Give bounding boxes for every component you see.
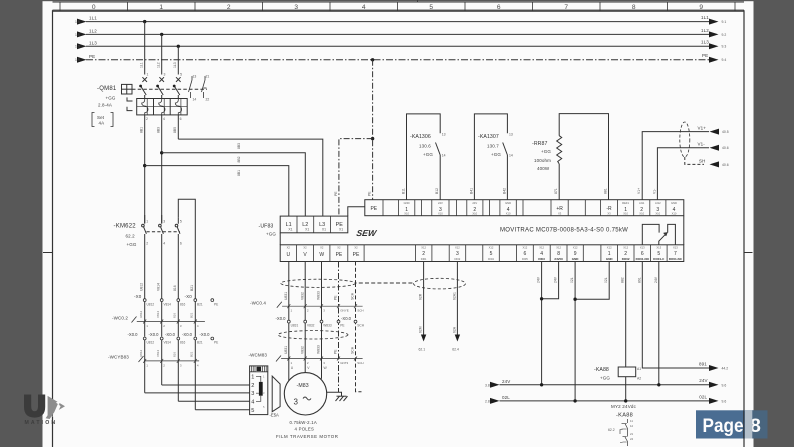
svg-text:X1: X1 [322, 228, 326, 232]
svg-text:02L: 02L [502, 395, 510, 400]
svg-text:X12: X12 [607, 246, 612, 250]
svg-text:1L3: 1L3 [701, 40, 709, 45]
svg-text:5: 5 [180, 73, 182, 77]
wire drive output U [284, 262, 289, 381]
svg-text:8B3: 8B3 [237, 143, 241, 149]
breaker QM81 pole 3 [174, 77, 180, 98]
terminal X0.0 motor row labels [276, 316, 352, 321]
svg-text:X2: X2 [287, 246, 291, 250]
svg-text:X1: X1 [305, 228, 309, 232]
svg-text:U812: U812 [139, 310, 143, 318]
svg-text:GND: GND [505, 201, 511, 205]
svg-text:62A1: 62A1 [452, 292, 456, 300]
svg-text:9.1: 9.1 [722, 20, 727, 24]
logo upmation [24, 395, 65, 427]
svg-text:-X0.0: -X0.0 [200, 332, 211, 337]
svg-text:V1+: V1+ [637, 188, 641, 194]
svg-text:24V: 24V [438, 201, 443, 205]
wires X0 to X0.0 [145, 301, 196, 336]
wires X0.0 down [145, 340, 196, 410]
svg-text:X12: X12 [539, 246, 544, 250]
svg-text:W833: W833 [317, 345, 321, 354]
svg-text:X12: X12 [421, 246, 426, 250]
connector E5A [250, 366, 268, 415]
svg-text:8B5: 8B5 [173, 127, 177, 133]
svg-text:1L1: 1L1 [140, 62, 144, 68]
bus 02L [485, 394, 726, 404]
svg-text:PE: PE [334, 349, 338, 354]
svg-text:SCH: SCH [357, 324, 364, 328]
svg-text:DI04: DI04 [488, 257, 494, 261]
svg-text:40.6: 40.6 [722, 163, 729, 167]
relay contact DO01 inside drive [642, 224, 675, 244]
svg-text:100ohm: 100ohm [534, 158, 551, 163]
ruler ticks [60, 2, 735, 11]
node coil A2 on 0V bus [624, 399, 627, 402]
svg-text:+GG: +GG [127, 242, 137, 247]
svg-text:-X0: -X0 [134, 294, 142, 299]
svg-text:0.75kW-2.1A: 0.75kW-2.1A [290, 420, 318, 425]
svg-text:A1: A1 [637, 367, 641, 371]
cable marker drive output oval [281, 279, 356, 287]
svg-text:40.5: 40.5 [722, 130, 729, 134]
svg-text:12: 12 [630, 424, 634, 428]
node 0V join [573, 298, 576, 301]
cable marker analog pair [680, 122, 690, 157]
svg-text:X10: X10 [639, 212, 644, 216]
svg-text:X10: X10 [438, 212, 443, 216]
node L3 junction [177, 45, 180, 48]
svg-text:14: 14 [442, 154, 446, 158]
svg-text:24V: 24V [654, 276, 658, 283]
svg-text:5: 5 [180, 220, 182, 224]
svg-text:4A: 4A [99, 121, 105, 126]
wire DI02 [452, 262, 460, 352]
fold tick top center [417, 0, 419, 2]
node GND on 0V bus [573, 399, 576, 402]
svg-text:X2: X2 [320, 246, 324, 250]
svg-text:21: 21 [630, 432, 634, 436]
svg-text:GNYE: GNYE [340, 309, 349, 313]
svg-text:40.6: 40.6 [722, 146, 729, 150]
wire DI01 [419, 262, 427, 352]
drive body outline [280, 207, 684, 245]
svg-text:GND: GND [404, 201, 410, 205]
svg-text:-X0.0: -X0.0 [182, 332, 193, 337]
svg-text:2.8-4A: 2.8-4A [98, 103, 112, 108]
svg-text:FILM TRAVERSE MOTOR: FILM TRAVERSE MOTOR [276, 434, 338, 439]
svg-text:DO02: DO02 [622, 257, 630, 261]
wire GND1 [575, 262, 609, 300]
margin center ticks [43, 252, 753, 254]
svg-text:3: 3 [164, 73, 166, 77]
svg-text:62R: 62R [419, 293, 423, 300]
svg-text:B42: B42 [502, 188, 506, 194]
svg-text:-KA1307: -KA1307 [478, 134, 499, 140]
svg-text:-UF83: -UF83 [259, 224, 274, 230]
wire breaker out 1 [140, 115, 145, 223]
svg-text:PE: PE [353, 252, 360, 258]
svg-text:DO01-NC: DO01-NC [669, 257, 683, 261]
svg-text:24V: 24V [554, 276, 558, 283]
svg-text:PE: PE [370, 206, 377, 212]
svg-text:V832: V832 [300, 346, 304, 354]
svg-text:U812: U812 [139, 349, 143, 357]
svg-text:9.6: 9.6 [722, 399, 727, 403]
svg-text:882: 882 [621, 277, 625, 283]
svg-text:X10: X10 [506, 212, 511, 216]
ruler top line [53, 1, 745, 3]
motor M83 circle [284, 373, 326, 415]
breaker QM81 thermal overload block [137, 99, 188, 115]
svg-text:DI02: DI02 [455, 257, 461, 261]
svg-text:X1: X1 [288, 228, 292, 232]
svg-text:816: 816 [180, 302, 186, 306]
svg-text:X2: X2 [303, 246, 307, 250]
drive upper terminal strip [365, 200, 684, 216]
svg-text:X13: X13 [640, 246, 645, 250]
cable marker motor oval [278, 331, 348, 339]
svg-text:U831: U831 [291, 324, 299, 328]
svg-text:-QM81: -QM81 [97, 86, 117, 92]
wire to drive L3 [178, 139, 322, 216]
svg-text:2.8: 2.8 [485, 399, 490, 403]
svg-text:11: 11 [630, 419, 633, 423]
svg-text:14: 14 [509, 154, 513, 158]
ruler bottom line [53, 10, 745, 12]
wire PE drop [368, 60, 373, 200]
wire KM622 out 2 [157, 234, 162, 299]
svg-text:8B1: 8B1 [140, 127, 144, 133]
svg-text:62M: 62M [419, 326, 423, 333]
svg-text:6: 6 [180, 242, 182, 246]
wire GND9 [570, 262, 575, 401]
breaker QM81 pole 2 [158, 77, 164, 98]
svg-text:+GG: +GG [423, 152, 433, 157]
svg-text:13: 13 [442, 133, 446, 137]
svg-text:1.9: 1.9 [75, 45, 80, 49]
svg-text:130.7: 130.7 [487, 144, 499, 149]
contactor KM622 pole 1 [142, 215, 147, 234]
wire to E5A pin4 [178, 400, 249, 402]
wire DI03 24V [537, 262, 542, 385]
svg-text:24V: 24V [699, 378, 707, 383]
svg-text:24V: 24V [537, 276, 541, 283]
svg-text:X3: X3 [607, 212, 611, 216]
svg-text:1L1: 1L1 [701, 15, 709, 20]
svg-text:3.8: 3.8 [485, 383, 490, 387]
wire V1+ [637, 126, 729, 200]
wire KM622 out 1 [140, 234, 145, 299]
svg-text:24VIO: 24VIO [554, 257, 563, 261]
ruler column numbers [92, 4, 704, 11]
svg-text:GND: GND [606, 257, 614, 261]
svg-text:2: 2 [422, 251, 425, 257]
svg-text:3: 3 [294, 398, 299, 407]
breaker QM81 linkage dashed [132, 88, 207, 90]
svg-text:-KM622: -KM622 [114, 224, 137, 230]
contactor KM622 linkage dashed [147, 231, 181, 233]
svg-text:24: 24 [630, 437, 634, 441]
svg-text:3: 3 [163, 220, 165, 224]
svg-text:816: 816 [180, 341, 186, 345]
svg-text:4: 4 [163, 117, 165, 121]
svg-text:22: 22 [206, 98, 210, 102]
svg-text:24V: 24V [472, 201, 477, 205]
relay KA88 xref contact table [622, 419, 628, 446]
wire to E5A pin3 [145, 392, 250, 394]
wire DO01-C [654, 262, 659, 385]
breaker QM81 set label [92, 113, 113, 127]
node PE tee [371, 137, 374, 140]
svg-text:+GG: +GG [491, 152, 501, 157]
svg-text:62.1: 62.1 [419, 348, 426, 352]
svg-text:2: 2 [146, 242, 148, 246]
svg-text:PE: PE [336, 252, 343, 258]
svg-text:X1: X1 [339, 228, 343, 232]
svg-text:-KA88: -KA88 [616, 413, 633, 419]
terminal X0.0 circles [143, 337, 213, 340]
svg-text:1: 1 [146, 220, 148, 224]
node branch L1 to drive [143, 164, 146, 167]
svg-text:MATION: MATION [25, 420, 58, 426]
svg-text:X10: X10 [404, 212, 409, 216]
svg-text:-KA88: -KA88 [594, 367, 609, 373]
svg-text:GND: GND [671, 201, 677, 205]
relay contact KA1306 loop [401, 114, 445, 200]
breaker QM81 pole 1 pin dot [139, 85, 142, 88]
svg-text:X13: X13 [673, 246, 678, 250]
wire breaker out 2 [157, 115, 162, 223]
svg-text:X10: X10 [472, 212, 477, 216]
svg-text:X2: X2 [354, 246, 358, 250]
svg-text:V814: V814 [164, 341, 172, 345]
svg-text:PE: PE [340, 324, 344, 328]
svg-text:1L1: 1L1 [89, 16, 97, 21]
svg-text:62.2: 62.2 [126, 234, 136, 239]
node PE junction [371, 58, 374, 61]
wire phase drop 3 [173, 46, 178, 74]
svg-text:62.4: 62.4 [452, 348, 459, 352]
svg-text:5: 5 [490, 251, 493, 257]
svg-text:U: U [286, 252, 290, 258]
svg-text:SH: SH [699, 158, 706, 163]
wire DO01-NO out [637, 262, 728, 372]
svg-text:B41: B41 [469, 188, 473, 194]
svg-text:W833: W833 [317, 291, 321, 300]
svg-text:8B2: 8B2 [237, 156, 241, 162]
svg-text:V832: V832 [300, 292, 304, 300]
svg-text:-R: -R [606, 206, 612, 212]
svg-text:A2: A2 [637, 377, 641, 381]
ground motor frame [327, 392, 348, 401]
cable WC0.2 [112, 310, 205, 328]
svg-text:B21: B21 [190, 285, 194, 291]
bus PE [75, 53, 726, 63]
wire KM622 out 3 [173, 234, 178, 299]
svg-text:X2: X2 [337, 246, 341, 250]
svg-text:U812: U812 [147, 341, 155, 345]
wire breaker out 3 [173, 115, 178, 139]
relay coil KA88 [618, 367, 641, 381]
svg-text:1L2: 1L2 [157, 62, 161, 68]
svg-text:3: 3 [456, 251, 459, 257]
svg-text:1: 1 [251, 375, 254, 381]
svg-text:44.2: 44.2 [722, 367, 729, 371]
svg-text:02L: 02L [699, 394, 707, 399]
svg-text:9.2: 9.2 [722, 33, 727, 37]
svg-text:4: 4 [163, 242, 165, 246]
svg-text:-X0: -X0 [185, 294, 193, 299]
wire phase drop 1 [140, 22, 145, 75]
svg-text:SCH: SCH [357, 309, 363, 313]
node DO01-C on 24V bus [657, 383, 660, 386]
breaker QM81 L-hooks [127, 97, 133, 110]
svg-text:8B3: 8B3 [157, 127, 161, 133]
svg-text:REF1: REF1 [622, 201, 629, 205]
svg-text:B21: B21 [197, 341, 203, 345]
page badge [696, 410, 768, 438]
svg-text:6: 6 [524, 251, 527, 257]
breaker QM81 pole 3 pin dot [173, 85, 176, 88]
svg-text:MOVITRAC MC07B-0008-5A3-4-S0 0: MOVITRAC MC07B-0008-5A3-4-S0 0.75kW [500, 228, 628, 234]
svg-text:1L2: 1L2 [701, 28, 709, 33]
svg-text:-X0.0: -X0.0 [149, 332, 160, 337]
svg-text:X12: X12 [523, 246, 528, 250]
svg-text:GND: GND [572, 257, 580, 261]
wire to E5A pin5 [195, 409, 249, 411]
svg-text:X12: X12 [489, 246, 494, 250]
svg-text:V814: V814 [164, 302, 172, 306]
svg-text:816: 816 [173, 313, 177, 318]
svg-text:V1-: V1- [652, 189, 656, 194]
wire to drive L1 [145, 166, 289, 217]
svg-text:-RR87: -RR87 [532, 141, 548, 147]
svg-text:9.4: 9.4 [722, 58, 727, 62]
svg-text:U812: U812 [147, 302, 155, 306]
svg-text:14: 14 [193, 98, 197, 102]
contactor KM622 pole 2 [159, 215, 164, 234]
svg-text:1.9: 1.9 [75, 20, 80, 24]
svg-text:PE: PE [368, 191, 372, 196]
svg-text:X3: X3 [558, 212, 562, 216]
svg-text:1.9: 1.9 [75, 33, 80, 37]
svg-text:02L: 02L [604, 277, 608, 283]
svg-text:881: 881 [603, 188, 607, 194]
drive lower terminal strip [280, 245, 684, 262]
svg-text:SCH: SCH [351, 292, 355, 300]
svg-text:1L2: 1L2 [89, 28, 97, 33]
node 24V join [540, 297, 543, 300]
svg-text:X12: X12 [623, 246, 628, 250]
wire drive output V [300, 262, 305, 373]
cable WCM83 [249, 353, 364, 366]
svg-text:62A: 62A [452, 326, 456, 333]
wire drive output PE [334, 262, 339, 393]
svg-text:X12: X12 [573, 246, 578, 250]
svg-text:871: 871 [554, 188, 558, 194]
svg-text:SCH: SCH [357, 361, 363, 365]
wire phase drop 2 [157, 34, 162, 74]
svg-text:PE: PE [334, 191, 338, 196]
bus L1 [75, 15, 726, 25]
wire V1- [652, 142, 728, 200]
svg-text:816: 816 [173, 352, 177, 357]
svg-text:-X0.0: -X0.0 [341, 316, 352, 321]
relay contact KA1307 loop [469, 114, 513, 200]
wire shield analog [685, 157, 729, 167]
svg-text:X12: X12 [556, 246, 561, 250]
resistor RR87 loop [554, 114, 608, 200]
motor terminal letters [291, 366, 328, 370]
svg-text:DO01-C: DO01-C [653, 257, 665, 261]
svg-text:U812: U812 [140, 283, 144, 291]
svg-text:62.2: 62.2 [608, 428, 615, 432]
svg-text:+GG: +GG [106, 96, 116, 101]
wire to drive L2 [162, 153, 306, 216]
svg-text:W: W [319, 252, 324, 258]
svg-text:B12: B12 [435, 188, 439, 194]
svg-text:AI12: AI12 [655, 201, 661, 205]
svg-text:+GG: +GG [541, 149, 551, 154]
wire loop pole3 to B21 [178, 199, 195, 300]
cable WC0.4 [250, 301, 364, 313]
breaker QM81 aux contacts [189, 76, 207, 98]
svg-text:13: 13 [509, 133, 513, 137]
svg-text:5: 5 [251, 408, 254, 414]
svg-text:PE: PE [214, 341, 218, 345]
bus L3 [75, 40, 726, 50]
wire 24VIO [542, 262, 559, 299]
svg-text:816: 816 [173, 285, 177, 291]
svg-text:DO01-NO: DO01-NO [636, 257, 650, 261]
svg-text:X10: X10 [655, 212, 660, 216]
svg-text:U831: U831 [284, 292, 288, 300]
svg-text:-X0.0: -X0.0 [165, 332, 176, 337]
svg-text:1L3: 1L3 [173, 62, 177, 68]
svg-text:+R: +R [556, 206, 563, 212]
breaker QM81 pole 2 pin dot [156, 85, 159, 88]
bus 24V [485, 378, 726, 388]
breaker QM81 pole 1 [141, 77, 147, 98]
svg-text:6: 6 [180, 117, 182, 121]
svg-text:9.6: 9.6 [722, 383, 727, 387]
svg-text:X13: X13 [656, 246, 661, 250]
svg-text:GNT3: GNT3 [340, 361, 348, 365]
svg-text:B21: B21 [190, 351, 194, 357]
bus L2 [75, 28, 726, 38]
svg-text:V1+: V1+ [698, 126, 707, 131]
terminal X0.0 motor circles [287, 320, 357, 323]
svg-text:Set: Set [97, 115, 105, 120]
wire PE branch to input PE [334, 139, 373, 217]
svg-text:X10: X10 [623, 212, 628, 216]
node DI03 on 24V bus [540, 383, 543, 386]
svg-text:13: 13 [193, 75, 197, 79]
svg-text:2: 2 [251, 383, 254, 389]
svg-text:V814: V814 [156, 350, 160, 357]
svg-text:DI05: DI05 [522, 257, 528, 261]
svg-text:B21: B21 [190, 312, 194, 318]
svg-text:+GG: +GG [600, 376, 610, 381]
drive UF83 input terminal strip L1 L2 L3 PE [280, 216, 348, 233]
wire coil A2 [625, 377, 627, 401]
svg-text:B21: B21 [197, 302, 203, 306]
svg-text:1L3: 1L3 [89, 40, 97, 45]
svg-text:V1-: V1- [698, 142, 706, 147]
svg-text:-WC0.2: -WC0.2 [112, 316, 128, 321]
svg-text:Page: Page [703, 415, 744, 437]
